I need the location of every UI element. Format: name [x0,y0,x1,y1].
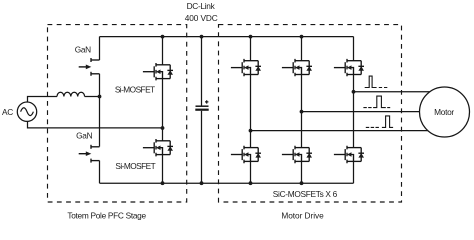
GaN transistor Q1 (top, fast leg) [79,58,100,76]
svg-text:GaN: GaN [76,130,92,140]
svg-text:400 VDC: 400 VDC [185,13,218,23]
svg-text:Motor Drive: Motor Drive [281,211,324,221]
svg-text:AC: AC [2,107,13,117]
wire: leg1 midpoint vertical [250,75,252,148]
svg-text:DC-Link: DC-Link [187,1,216,11]
Si-MOSFET Q3 (top, slow leg) [143,63,173,80]
wire: AC bottom lead to slow-leg midpoint [28,121,163,128]
svg-text:Si-MOSFET: Si-MOSFET [115,85,155,95]
AC source V1 [17,102,36,121]
svg-text:GaN: GaN [75,45,91,55]
svg-text:Si-MOSFET: Si-MOSFET [115,161,155,171]
SiC-MOSFET Q7 (leg2 high side) [282,59,312,76]
wire: inverter leg1 drain [250,37,252,61]
SiC-MOSFET Q5 (leg1 high side) [231,59,261,76]
wire: inductor to fast-leg midpoint [85,96,100,98]
wire: phase A to motor [354,91,432,93]
node: slow-leg midpoint junction [161,126,165,130]
node: leg1 top rail junction [249,35,253,39]
node: cap bottom junction [200,181,204,185]
wire: GaN leg source to DC- [99,161,101,184]
wire: Si leg source to DC- [162,155,164,184]
node: leg1 bottom rail junction [249,181,253,185]
Si-MOSFET Q4 (bottom, slow leg) [143,139,173,156]
SiC-MOSFET Q9 (leg3 high side) [334,59,364,76]
node: Si leg top rail junction [161,35,165,39]
capacitor C1 polarity plus [205,100,208,103]
DC+ top rail wire [100,36,354,38]
node: leg3 phase tap junction [352,90,356,94]
wire: inverter leg3 drain [353,37,355,61]
svg-text:Motor: Motor [434,107,454,117]
wire: phase B to motor [302,111,421,113]
node: fast-leg midpoint junction [98,95,102,99]
GaN transistor Q2 (bottom, fast leg) [79,145,100,163]
wire: slow leg midpoint vertical [162,79,164,141]
SiC-MOSFET Q8 (leg2 low side) [282,146,312,163]
motor M1 [420,87,470,137]
DC- bottom rail wire [100,182,354,184]
node: leg2 bottom rail junction [300,181,304,185]
svg-text:SiC-MOSFETs X 6: SiC-MOSFETs X 6 [273,189,338,199]
SiC-MOSFET Q10 (leg3 low side) [334,146,364,163]
wire: inverter leg2 drain [301,37,303,61]
wire: AC top lead to inductor [28,97,58,103]
totem pole PFC stage dashed boundary [48,25,187,202]
capacitor C1 bottom wire [201,111,203,183]
node: leg2 phase tap junction [300,110,304,114]
wire: Si leg drain from DC+ [162,37,164,65]
wire: leg2 midpoint vertical [301,75,303,148]
wire: leg1 source to DC- [250,161,252,183]
capacitor C1 bottom plate [195,109,208,111]
pulse waveform P1 [365,76,388,87]
capacitor C1 DC-link: top wire [201,37,203,106]
wire: leg3 midpoint vertical [353,75,355,148]
wire: GaN leg drain from DC+ [99,37,101,60]
node: Si leg bottom rail junction [161,181,165,185]
wire: phase C to motor [251,130,429,132]
node: leg1 phase tap junction [249,129,253,133]
SiC-MOSFET Q6 (leg1 low side) [231,146,261,163]
inductor L1 [57,92,85,96]
motor drive dashed boundary [219,25,402,202]
pulse waveform P3 [366,116,393,128]
svg-text:Totem Pole PFC Stage: Totem Pole PFC Stage [67,211,146,221]
pulse waveform P2 [363,96,390,108]
capacitor C1 top plate [196,105,209,107]
node: cap top junction [200,35,204,39]
wire: fast leg midpoint vertical [99,74,101,147]
wire: leg2 source to DC- [301,161,303,183]
wire: leg3 source to DC- [353,161,355,183]
node: leg2 top rail junction [300,35,304,39]
